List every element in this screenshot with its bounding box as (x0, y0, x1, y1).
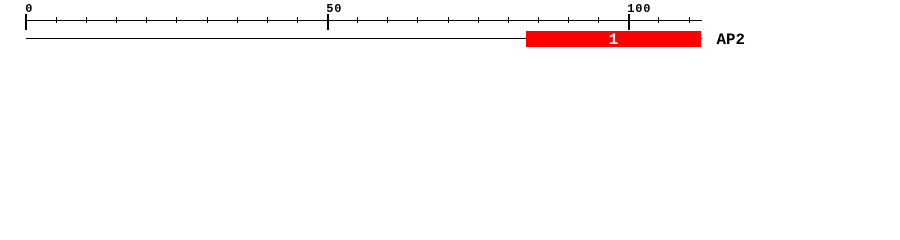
major tick 100 (628, 14, 630, 30)
minor tick 55 (357, 17, 358, 23)
ruler baseline (26, 20, 702, 21)
minor tick 85 (538, 17, 539, 23)
minor tick 110 (689, 17, 690, 23)
minor tick 35 (237, 17, 238, 23)
minor tick 95 (598, 17, 599, 23)
svg-text:50: 50 (326, 2, 342, 16)
major tick 50 (327, 14, 329, 30)
minor tick 60 (387, 17, 388, 23)
svg-text:AP2: AP2 (717, 31, 745, 49)
minor tick 40 (267, 17, 268, 23)
sequence line (26, 38, 702, 39)
minor tick 65 (417, 17, 418, 23)
minor tick 5 (56, 17, 57, 23)
svg-text:100: 100 (627, 2, 651, 16)
minor tick 20 (146, 17, 147, 23)
svg-text:0: 0 (25, 2, 33, 16)
minor tick 70 (448, 17, 449, 23)
minor tick 30 (207, 17, 208, 23)
minor tick 90 (568, 17, 569, 23)
svg-text:1: 1 (609, 31, 618, 49)
minor tick 15 (116, 17, 117, 23)
minor tick 25 (176, 17, 177, 23)
minor tick 10 (86, 17, 87, 23)
minor tick 80 (508, 17, 509, 23)
domain box AP2 (red) (526, 31, 701, 47)
major tick 0 (25, 14, 27, 30)
minor tick 75 (478, 17, 479, 23)
minor tick 45 (297, 17, 298, 23)
minor tick 105 (658, 17, 659, 23)
